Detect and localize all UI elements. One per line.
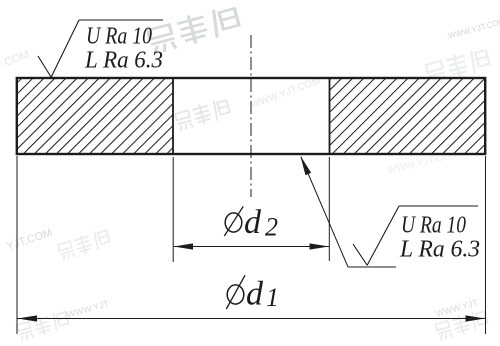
watermark mid-right under hatch <box>386 148 460 176</box>
dimension line d2 <box>174 246 329 248</box>
surface finish symbol top-left <box>38 20 163 78</box>
label phi d2 <box>224 206 243 236</box>
centerline <box>250 35 252 197</box>
watermark bottom-right <box>432 296 489 340</box>
svg-text:d: d <box>246 276 264 313</box>
surface finish symbol right <box>353 206 478 266</box>
svg-text:d: d <box>244 204 262 241</box>
watermark left-edge <box>0 49 31 70</box>
arrow d2 left <box>174 243 194 249</box>
extension line d2 right <box>328 157 330 261</box>
arrow d1 left <box>18 315 38 321</box>
svg-text:U Ra 10: U Ra 10 <box>86 23 152 50</box>
watermark top-center <box>139 0 276 53</box>
extension line d2 left <box>172 157 174 262</box>
arrow d1 right <box>466 315 486 321</box>
svg-text:U Ra 10: U Ra 10 <box>401 212 466 239</box>
svg-text:L Ra 6.3: L Ra 6.3 <box>399 236 480 263</box>
extension line d1 left <box>16 156 18 334</box>
hatched right section <box>330 79 485 154</box>
watermark top-right <box>419 17 500 84</box>
svg-text:2: 2 <box>265 213 278 242</box>
watermark in hole <box>174 98 230 131</box>
watermark bottom-left <box>16 297 112 341</box>
arrow d2 right <box>310 243 330 249</box>
leader arrow to bore surface <box>301 157 348 267</box>
svg-text:L Ra 6.3: L Ra 6.3 <box>84 47 163 74</box>
watermark left-mid <box>5 211 111 276</box>
dimension line d1 <box>18 318 486 320</box>
leader landing <box>348 266 396 268</box>
washer outline <box>17 78 485 154</box>
label phi d1 <box>226 275 245 309</box>
svg-text:1: 1 <box>266 283 279 312</box>
hatched left section <box>17 79 173 154</box>
hole right edge <box>329 78 331 154</box>
extension line d1 right <box>485 156 487 334</box>
hole left edge <box>172 78 174 154</box>
